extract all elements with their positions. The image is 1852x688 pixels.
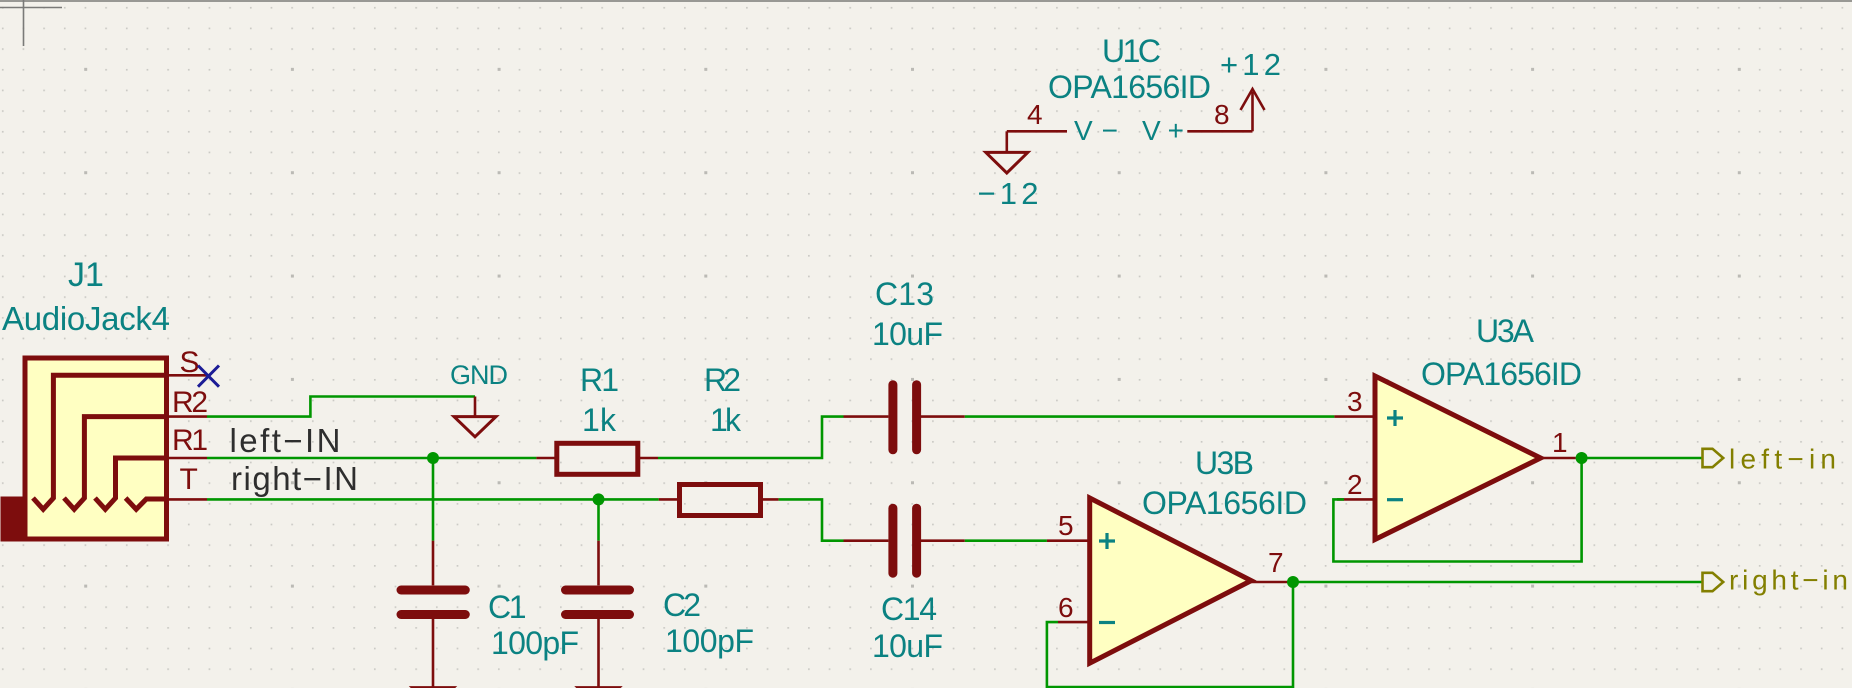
J1 hook S contact <box>33 375 167 509</box>
wire C1 branch <box>432 458 435 541</box>
svg-text:6: 6 <box>1058 592 1074 623</box>
svg-text:2: 2 <box>1347 469 1363 500</box>
U3A output junction <box>1576 452 1588 464</box>
power unit U1C <box>1007 130 1253 133</box>
svg-text:R1: R1 <box>172 424 208 457</box>
wire C2 branch <box>597 499 600 540</box>
svg-text:1k: 1k <box>582 402 617 438</box>
svg-text:8: 8 <box>1214 99 1230 130</box>
svg-text:R1: R1 <box>580 362 619 398</box>
svg-text:C2: C2 <box>663 587 701 623</box>
wire left-IN from jack R1 to R1 resistor <box>207 457 536 460</box>
wire right-IN from jack T to R2 resistor <box>207 498 659 501</box>
power symbol -12 (ground arrow) <box>986 131 1028 173</box>
svg-text:U3A: U3A <box>1476 313 1535 349</box>
svg-text:C1: C1 <box>488 589 527 625</box>
svg-text:U3B: U3B <box>1195 445 1254 481</box>
svg-text:AudioJack4: AudioJack4 <box>2 300 170 337</box>
op-amp U3A <box>1334 376 1575 540</box>
op-amp U3B <box>1047 498 1288 663</box>
svg-text:OPA1656ID: OPA1656ID <box>1048 69 1211 105</box>
svg-text:4: 4 <box>1027 99 1043 130</box>
J1 pin R2 <box>167 415 208 418</box>
hierarchical label marker left-in <box>1703 449 1724 467</box>
svg-text:S: S <box>180 346 200 379</box>
svg-text:right−IN: right−IN <box>231 460 358 497</box>
ground symbol near jack <box>454 397 496 437</box>
wire R1 to C13 <box>658 417 844 458</box>
power symbol +12 (arrow up) <box>1241 89 1265 131</box>
capacitor C2 <box>566 541 630 687</box>
sheet corner crosshair <box>0 0 62 46</box>
capacitor C1 <box>401 541 465 687</box>
J1 pin T <box>167 498 208 501</box>
J1 hook T contact <box>126 498 167 509</box>
svg-text:3: 3 <box>1347 386 1363 417</box>
svg-text:R2: R2 <box>704 362 741 398</box>
svg-text:+12: +12 <box>1220 47 1281 82</box>
svg-text:R2: R2 <box>172 386 208 419</box>
capacitor C14 <box>844 508 965 573</box>
svg-text:C13: C13 <box>875 276 934 312</box>
connector J1 AudioJack4 <box>1 256 209 542</box>
wire U3A output to left-in label <box>1582 457 1703 460</box>
svg-text:10uF: 10uF <box>872 316 943 352</box>
svg-text:U1C: U1C <box>1102 33 1161 69</box>
svg-text:100pF: 100pF <box>665 623 754 659</box>
wire R2 pin to GND <box>207 397 475 417</box>
sheet border top edge <box>0 0 1852 2</box>
wire C14 to U3B pin 5 <box>965 539 1047 542</box>
U3B pin 5 <box>1047 539 1090 542</box>
U3A pin 1 <box>1541 457 1576 460</box>
U3A pin 3 <box>1334 415 1375 418</box>
svg-text:1k: 1k <box>710 402 742 438</box>
ground symbol below C2 (clipped) <box>578 687 620 688</box>
U3B minus symbol <box>1099 621 1115 624</box>
U1C pin 8 (V+) <box>1187 130 1252 133</box>
wire U3A feedback loop <box>1333 458 1581 562</box>
U3B output junction <box>1287 576 1299 588</box>
svg-text:T: T <box>180 463 198 496</box>
wire R2 to C14 <box>779 499 844 540</box>
resistor R1 <box>536 443 658 474</box>
svg-text:OPA1656ID: OPA1656ID <box>1421 356 1582 392</box>
U3A minus symbol <box>1387 498 1403 501</box>
svg-text:J1: J1 <box>68 256 104 294</box>
svg-text:OPA1656ID: OPA1656ID <box>1142 485 1307 521</box>
svg-text:5: 5 <box>1058 510 1074 541</box>
svg-text:left−IN: left−IN <box>230 422 341 459</box>
J1 hook R2 contact <box>64 417 167 510</box>
wire C13 to U3A pin 3 <box>965 415 1335 418</box>
junction node on left-IN <box>427 452 439 464</box>
ground symbol below C1 (clipped) <box>412 687 454 688</box>
U1C pin 4 (V-) <box>1007 130 1067 133</box>
svg-text:100pF: 100pF <box>491 625 579 661</box>
J1 hook R1 contact <box>95 458 167 509</box>
svg-text:C14: C14 <box>881 591 937 627</box>
svg-text:7: 7 <box>1268 547 1284 578</box>
J1 pin R1 <box>167 457 208 460</box>
U3A pin 2 <box>1337 498 1375 501</box>
J1 body <box>25 358 167 539</box>
svg-text:−12: −12 <box>978 176 1039 211</box>
capacitor C13 <box>844 385 965 450</box>
wire U3B output to right-in label <box>1293 581 1703 584</box>
U3B pin 7 <box>1251 581 1287 584</box>
U3B pin 6 <box>1058 621 1090 624</box>
no-connect X on pin S <box>198 366 219 387</box>
J1 sleeve block <box>1 497 26 542</box>
U3B plus symbol <box>1099 533 1115 549</box>
junction node on right-IN <box>593 493 605 505</box>
hierarchical label marker right-in <box>1703 573 1724 591</box>
svg-text:10uF: 10uF <box>872 628 943 664</box>
svg-text:1: 1 <box>1552 427 1568 458</box>
resistor R2 <box>659 485 779 516</box>
U3A plus symbol <box>1387 410 1403 426</box>
svg-text:GND: GND <box>450 360 508 390</box>
wire U3B feedback loop <box>1047 582 1293 687</box>
J1 pin S <box>167 374 208 377</box>
